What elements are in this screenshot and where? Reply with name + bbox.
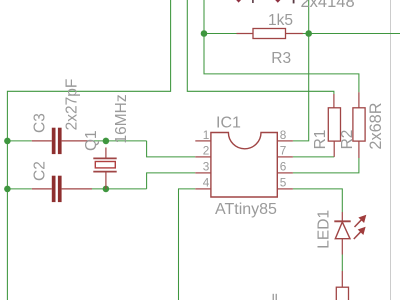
svg-text:4: 4 xyxy=(203,176,210,190)
svg-text:R3: R3 xyxy=(271,50,291,67)
junction node C2/rail xyxy=(4,186,11,193)
svg-text:Q1: Q1 xyxy=(83,130,100,151)
svg-text:R1: R1 xyxy=(312,130,329,150)
svg-text:16MHz: 16MHz xyxy=(113,94,130,143)
pin 8 stub xyxy=(277,140,293,142)
pin 7 stub xyxy=(277,156,293,158)
capacitor C3 xyxy=(32,140,52,142)
svg-text:ATtiny85: ATtiny85 xyxy=(215,201,277,218)
wire C2 to crystal bottom junction xyxy=(92,188,147,190)
pin 3 stub xyxy=(195,172,211,174)
svg-text:2: 2 xyxy=(203,144,210,158)
junction node R3 right xyxy=(305,30,312,37)
label remnant bottom xyxy=(273,294,274,300)
svg-text:2x27pF: 2x27pF xyxy=(64,79,81,131)
capacitor C2 xyxy=(32,188,52,190)
resistor R2 xyxy=(358,92,360,108)
resistor below LED xyxy=(341,271,343,287)
wire pin 5 to LED anode xyxy=(293,189,342,212)
svg-text:LED1: LED1 xyxy=(316,210,333,249)
wire pin 6 to R2 bottom xyxy=(293,158,359,173)
svg-text:1: 1 xyxy=(203,128,210,142)
wire jog to pin 2 xyxy=(147,141,196,157)
svg-text:IC1: IC1 xyxy=(216,114,241,131)
junction node C3/rail xyxy=(4,138,11,145)
wire LED cathode to R bottom xyxy=(341,255,343,272)
wire pin 4 to bottom edge xyxy=(179,189,196,300)
crystal Q1 xyxy=(105,148,107,159)
op IC1 ATtiny85 box xyxy=(211,133,277,198)
junction node crystal bottom xyxy=(103,186,110,193)
wire R3 net right xyxy=(301,33,400,35)
svg-text:2x68R: 2x68R xyxy=(367,103,385,150)
pin 4 stub xyxy=(195,188,211,190)
wire jog to pin 3 xyxy=(147,173,196,189)
wire to R1 top xyxy=(187,0,334,94)
junction node R3 left xyxy=(201,30,208,37)
resistor R1 xyxy=(333,94,335,108)
frame border line xyxy=(390,0,392,300)
wire left rail xyxy=(7,0,170,300)
svg-text:8: 8 xyxy=(280,128,287,142)
svg-text:1k5: 1k5 xyxy=(268,12,293,29)
svg-text:3: 3 xyxy=(203,160,210,174)
pin 2 stub xyxy=(195,156,211,158)
resistor R3 xyxy=(237,33,254,35)
wire crystal top / C3 line xyxy=(7,140,31,142)
pin 6 stub xyxy=(277,172,293,174)
LED1 diode xyxy=(341,212,343,221)
wire V+ vertical to pin 8 xyxy=(293,0,309,141)
wire R3 net left xyxy=(204,0,237,34)
pin 5 stub xyxy=(277,188,293,190)
diode D2 bottom remnant xyxy=(275,0,280,3)
LED1 arrow 2 xyxy=(354,232,361,239)
pin 1 stub xyxy=(195,140,211,142)
junction node crystal top xyxy=(103,138,110,145)
svg-text:5: 5 xyxy=(280,176,287,190)
svg-text:C3: C3 xyxy=(32,113,49,133)
LED1 arrow 1 xyxy=(355,220,362,227)
svg-text:7: 7 xyxy=(280,144,287,158)
wire C3 to crystal junction xyxy=(92,140,147,142)
svg-text:R2: R2 xyxy=(339,130,356,150)
diode D1 bottom remnant xyxy=(236,0,241,3)
wire to R2 top xyxy=(204,34,359,93)
svg-text:2x4148: 2x4148 xyxy=(301,0,355,11)
svg-text:6: 6 xyxy=(280,160,287,174)
wire C2 / crystal bottom line xyxy=(7,188,31,190)
wire pin 7 to R1 bottom xyxy=(293,156,334,158)
svg-text:C2: C2 xyxy=(32,161,49,181)
